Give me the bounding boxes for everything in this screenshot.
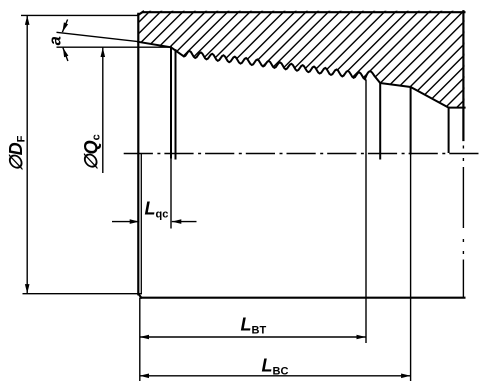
DF dimension line xyxy=(26,15,28,293)
dimension a upper leader xyxy=(62,20,67,33)
LBT right arrowhead xyxy=(357,335,367,340)
label diameter DF xyxy=(6,135,28,171)
Lqc dimension line left part xyxy=(112,221,139,223)
LBC dimension line xyxy=(140,375,411,377)
flange face extension below body xyxy=(139,298,141,381)
Qc arrowhead xyxy=(101,48,106,58)
thread runout vertical xyxy=(379,83,381,159)
LBT left arrowhead xyxy=(140,335,150,340)
label a xyxy=(46,36,64,45)
thread start vertical xyxy=(175,50,177,158)
flange top-left chamfer xyxy=(138,12,143,15)
body outer top edge xyxy=(143,11,464,13)
bore small-end vertical xyxy=(448,108,450,152)
flange bottom-left chamfer xyxy=(138,294,141,298)
LBC left arrowhead xyxy=(140,374,150,379)
Lqc right extension (bore line continued) xyxy=(170,157,172,229)
Qc diameter extension line xyxy=(57,46,172,48)
Qc arrow line xyxy=(102,48,104,174)
LBC right arrowhead xyxy=(401,374,411,379)
DF bottom arrowhead xyxy=(25,284,30,294)
section hatching of socket body xyxy=(25,8,481,114)
flange face chamfer edge (view half) xyxy=(140,154,142,294)
centre axis chain line xyxy=(124,153,479,155)
a upper arrowhead xyxy=(62,22,68,32)
body right edge (solid part above axis) xyxy=(462,11,464,140)
taper cone extension (slanted) xyxy=(57,32,140,41)
LBT dimension line xyxy=(140,336,367,338)
Lqc right arrowhead xyxy=(172,219,182,224)
internal taper thread profile (bore boundary with thread wave) xyxy=(138,42,464,108)
body right edge continuation (chain below axis) xyxy=(462,146,464,298)
DF top extension line xyxy=(21,14,138,16)
DF top arrowhead xyxy=(25,15,30,25)
Lqc dimension line right part xyxy=(172,221,197,223)
LBT extension line xyxy=(365,79,367,343)
LBC extension line xyxy=(410,154,412,382)
counterbore Qc end vertical xyxy=(170,47,172,157)
svg-text:a: a xyxy=(46,36,64,45)
bore step vertical at LBC plane xyxy=(410,87,412,154)
label diameter Qc xyxy=(81,134,103,170)
DF bottom extension line xyxy=(23,293,143,295)
body outer bottom edge xyxy=(141,297,465,299)
Lqc left arrowhead xyxy=(130,219,140,224)
flange face (left edge) xyxy=(137,14,139,295)
dimension a lower leader xyxy=(63,48,68,61)
a lower arrowhead xyxy=(63,48,69,58)
